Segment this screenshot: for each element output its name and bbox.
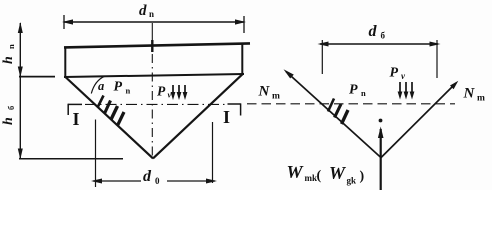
label P_v (right) — [390, 66, 407, 82]
svg-text:(: ( — [317, 169, 322, 184]
svg-text:v: v — [401, 71, 406, 81]
svg-text:I: I — [223, 107, 230, 127]
apex level reference line — [19, 158, 123, 160]
P_v down arrows (left) — [171, 85, 188, 100]
d_0 right extension line — [212, 122, 214, 183]
svg-text:a: a — [98, 79, 104, 93]
svg-text:h: h — [1, 117, 16, 125]
W force arrow — [378, 127, 384, 191]
svg-text:n: n — [361, 88, 366, 98]
left V slope — [65, 77, 153, 158]
svg-text:d: d — [143, 168, 152, 185]
vertical center line of left hopper — [151, 23, 153, 157]
center axis dot above apex — [379, 119, 383, 123]
pressure hatch strokes on right figure slope — [328, 99, 348, 125]
svg-text:n: n — [6, 44, 16, 49]
svg-text:h: h — [1, 56, 16, 64]
label W_mk(W_gk) — [287, 162, 365, 186]
svg-text:d: d — [369, 23, 378, 40]
section line I-I dash-dot — [85, 103, 226, 105]
svg-text:W: W — [287, 162, 305, 182]
label P_n (right) — [349, 83, 366, 99]
angle arc alpha — [91, 76, 105, 93]
h dimension vertical line — [18, 22, 23, 160]
section level dashed line (right figure) — [247, 103, 455, 105]
svg-text:mk: mk — [305, 173, 318, 183]
svg-text:W: W — [329, 163, 347, 183]
label N_m (right) — [463, 86, 486, 104]
label h_n (rotated) — [1, 44, 16, 64]
d_b left extension line — [321, 40, 323, 74]
label d_0 — [143, 168, 160, 186]
label P_v (left) — [157, 84, 172, 100]
right figure left slope with N_m arrow — [284, 69, 382, 157]
label N_m (left) — [258, 84, 281, 102]
svg-text:P: P — [349, 83, 358, 98]
label d_b — [369, 23, 386, 41]
svg-text:N: N — [258, 84, 271, 100]
label P_n (left) — [114, 80, 131, 96]
svg-text:n: n — [126, 86, 131, 96]
svg-text:n: n — [149, 9, 154, 19]
dimension line d_b (right figure) — [318, 42, 441, 47]
svg-text:N: N — [463, 86, 476, 102]
section line I-I right end — [228, 103, 241, 115]
svg-text:m: m — [272, 92, 280, 102]
right V slope — [153, 74, 243, 158]
label d_n — [139, 3, 154, 19]
svg-text:P: P — [390, 66, 399, 81]
svg-text:I: I — [73, 109, 80, 129]
dimension line d_n — [62, 15, 246, 33]
svg-text:б: б — [381, 31, 386, 41]
P_v down arrows (right) — [398, 82, 415, 100]
label h_b (rotated) — [1, 106, 16, 125]
svg-text:v: v — [168, 90, 172, 100]
label alpha — [98, 79, 104, 93]
d_0 left extension line — [95, 120, 97, 188]
svg-text:m: m — [477, 94, 485, 104]
pressure hatch strokes on left slope — [98, 96, 125, 126]
svg-text:): ) — [360, 169, 365, 184]
section letter I (right) — [223, 107, 230, 127]
svg-text:P: P — [157, 84, 166, 99]
h_n / h_b split tick — [19, 76, 55, 78]
svg-text:d: d — [139, 3, 147, 19]
dimension line d_0 — [91, 179, 217, 184]
section line I-I left end — [68, 104, 82, 115]
right figure right slope with N_m arrow — [381, 81, 458, 158]
svg-text:б: б — [6, 106, 16, 110]
d_b right extension line — [436, 40, 438, 78]
section letter I (left) — [73, 109, 80, 129]
hopper top band rectangle — [64, 43, 250, 78]
svg-text:0: 0 — [155, 176, 160, 186]
svg-text:gk: gk — [347, 176, 357, 186]
svg-text:P: P — [114, 80, 123, 95]
